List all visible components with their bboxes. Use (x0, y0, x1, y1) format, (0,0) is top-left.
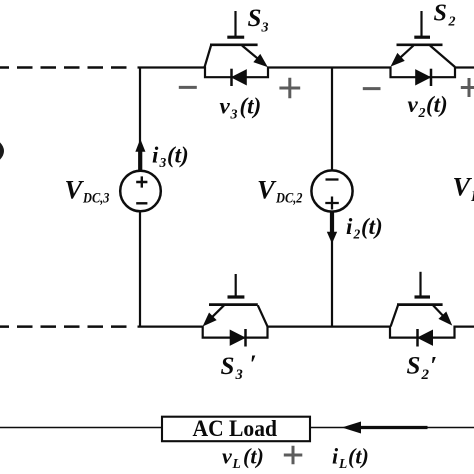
svg-text:(t): (t) (167, 143, 189, 168)
svg-text:(t): (t) (348, 444, 369, 469)
svg-text:(t): (t) (240, 94, 262, 119)
svg-text:3: 3 (230, 108, 238, 123)
wire: bottom rail with diode-loop dips (138, 327, 474, 338)
S3' emitter diagonal with arrow (212, 305, 224, 317)
svg-text:(t): (t) (243, 444, 264, 469)
svg-text:′: ′ (430, 353, 437, 380)
transistor S3 (top-left switch) (205, 11, 267, 86)
S3' channel bar (209, 303, 258, 306)
v3(t) plus sign (279, 78, 300, 98)
S3 gate bar (227, 36, 244, 39)
svg-text:v: v (408, 92, 419, 117)
S3 antiparallel diode triangle (232, 70, 247, 85)
wire: bottom AC bus left (0, 427, 163, 429)
S2' gate lead (419, 272, 421, 296)
svg-text:V: V (65, 175, 85, 205)
svg-text:′: ′ (250, 351, 257, 378)
svg-text:S: S (248, 5, 262, 32)
svg-text:3: 3 (235, 367, 243, 383)
wire: bottom AC bus right (309, 427, 474, 429)
S3' collector diagonal (258, 305, 268, 326)
svg-text:DC,3: DC,3 (82, 191, 110, 207)
transistor S2' (bottom-right switch) (391, 272, 452, 347)
svg-text:S: S (434, 1, 447, 27)
svg-text:(t): (t) (361, 214, 383, 239)
voltage source VDC,3 circle (120, 171, 161, 212)
S3 channel bar (210, 43, 258, 46)
v3(t) minus sign (179, 86, 197, 89)
S3' gate lead (235, 274, 237, 296)
AC load box (162, 417, 310, 442)
svg-text:3: 3 (261, 21, 269, 36)
S3' diode cathode bar (244, 329, 247, 347)
wire: left leg upper (node to Vdc3) (139, 67, 141, 172)
S3 diode cathode bar (230, 69, 233, 86)
svg-text:3: 3 (159, 155, 167, 170)
wire: top-left dashed bus (0, 66, 135, 69)
VDC,2 plus sign (325, 197, 339, 210)
svg-text:2: 2 (418, 106, 426, 121)
svg-text:DC,2: DC,2 (275, 191, 303, 207)
wire: middle leg lower (Vdc2 to bottom rail) (331, 212, 333, 328)
svg-text:2: 2 (448, 15, 456, 30)
gray polarity signs (179, 78, 474, 464)
svg-text:(t): (t) (426, 92, 448, 117)
S3 collector diagonal (205, 46, 211, 68)
svg-text:S: S (221, 353, 235, 380)
svg-text:S: S (407, 353, 421, 380)
VDC,3 plus sign (136, 176, 147, 187)
vL(t) plus sign (284, 446, 303, 464)
svg-text:2: 2 (421, 367, 430, 383)
wire: bottom-left dashed bus (0, 325, 127, 328)
S3 emitter diagonal with arrow (242, 46, 258, 59)
svg-text:L: L (338, 456, 347, 471)
S3' antiparallel diode triangle (230, 330, 245, 345)
S2 channel bar (397, 43, 443, 46)
S2' emitter diagonal with arrow (433, 305, 443, 316)
voltage source VDC,2 circle (311, 170, 352, 211)
VDC,3 minus sign (136, 202, 147, 204)
S2 collector diagonal (430, 46, 455, 68)
transistor S3' (bottom-left switch) (204, 274, 268, 347)
svg-text:i: i (152, 143, 159, 168)
S2 emitter diagonal with arrow (400, 46, 413, 58)
wire: left leg lower (Vdc3 to bottom rail) (139, 212, 141, 328)
v2(t) plus sign (clipped at edge) (461, 78, 474, 97)
current arrow iL(t) leftward (352, 426, 428, 429)
S2 antiparallel diode triangle (416, 70, 431, 85)
wire: middle leg upper (top rail to Vdc2) (331, 67, 333, 171)
current arrow i2(t) downward (328, 232, 337, 242)
S3 gate lead (234, 11, 236, 36)
S2' gate bar (415, 295, 431, 298)
transistor S2 (top-right switch) (392, 11, 456, 86)
S2' channel bar (397, 303, 443, 306)
wire: top rail with diode-loop dips (138, 68, 474, 78)
current arrow i3(t) upward (136, 140, 145, 151)
svg-text:V: V (257, 175, 277, 205)
svg-text:2: 2 (353, 227, 361, 242)
svg-text:V: V (453, 172, 473, 202)
S2 gate lead (420, 11, 422, 36)
svg-text:L: L (232, 456, 241, 471)
cropped label fragment at left edge (0, 144, 2, 159)
VDC,2 minus sign (326, 178, 339, 180)
S2' diode anode bar (416, 329, 419, 347)
svg-text:AC Load: AC Load (193, 416, 278, 442)
svg-text:v: v (222, 444, 232, 469)
S3' gate bar (228, 295, 245, 298)
S2 diode cathode bar (430, 69, 433, 86)
svg-text:i: i (332, 444, 339, 469)
S2 gate bar (414, 36, 430, 39)
svg-text:i: i (346, 214, 353, 239)
S2' collector diagonal (391, 305, 398, 326)
svg-text:v: v (220, 94, 231, 119)
v2(t) minus sign (363, 87, 381, 90)
S2' antiparallel diode triangle (418, 330, 433, 345)
svg-text:DC,1: DC,1 (470, 189, 474, 205)
